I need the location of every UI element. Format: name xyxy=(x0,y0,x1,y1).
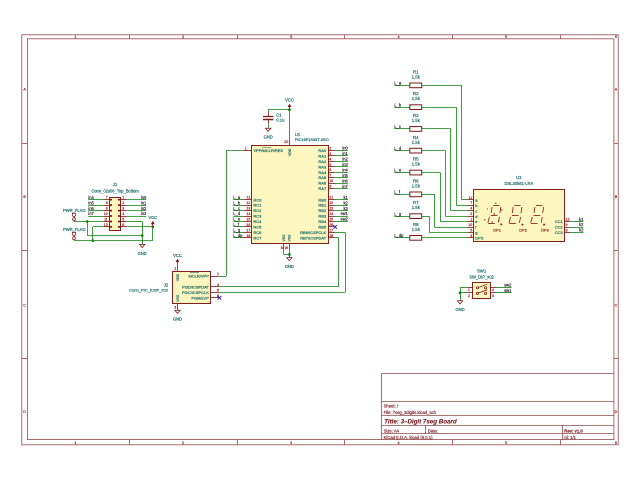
svg-text:12: 12 xyxy=(104,223,108,227)
svg-text:L_f: L_f xyxy=(394,190,401,195)
U2 pin 9 CC2 xyxy=(555,223,571,230)
connector J2 Conn_PIC_ICSP_ICD xyxy=(129,272,210,304)
svg-text:L_c: L_c xyxy=(394,124,401,129)
svg-text:2: 2 xyxy=(174,267,176,271)
wire and net label L_g at U1 xyxy=(233,228,243,233)
svg-text:Conn_PIC_ICSP_ICD: Conn_PIC_ICSP_ICD xyxy=(129,287,168,292)
svg-text:DP1: DP1 xyxy=(493,227,502,232)
resistor R8 1.5k xyxy=(410,222,422,240)
U2 pin 8 CC3 xyxy=(555,229,571,236)
svg-text:in3: in3 xyxy=(141,211,147,216)
wire U1 pin1 to J2 MCLR/VPP xyxy=(219,150,244,276)
svg-text:DPX: DPX xyxy=(475,236,484,241)
svg-text:k1: k1 xyxy=(343,195,348,200)
wire and net label sw1 at U1 xyxy=(335,211,349,216)
svg-text:RC0: RC0 xyxy=(253,197,262,202)
svg-text:VCC: VCC xyxy=(285,98,294,103)
U1 pin 17 RC6 xyxy=(244,228,263,235)
U2 digit 3 seven-segment glyph xyxy=(531,206,550,233)
wire and net label in1 xyxy=(127,200,147,205)
wire and net label sw2 xyxy=(496,282,512,287)
wire and net label L_a at U1 xyxy=(233,195,243,200)
svg-text:SW1: SW1 xyxy=(477,269,487,274)
wire U1 RB7 to J2 PGD/ICSPDAT xyxy=(219,238,339,287)
svg-text:2: 2 xyxy=(329,146,331,150)
svg-text:L_d: L_d xyxy=(394,146,402,151)
svg-text:VCC: VCC xyxy=(173,253,182,258)
svg-text:2: 2 xyxy=(182,441,184,445)
svg-text:Size: A4: Size: A4 xyxy=(384,429,400,434)
svg-text:RA2: RA2 xyxy=(318,159,327,164)
wire and net label L_c at U1 xyxy=(233,206,243,211)
svg-text:GND: GND xyxy=(285,264,294,269)
svg-text:8: 8 xyxy=(281,246,283,250)
title block xyxy=(381,374,614,441)
resistor R4 1.5k xyxy=(410,135,422,153)
svg-text:CC2: CC2 xyxy=(555,225,564,230)
svg-text:CC1: CC1 xyxy=(555,219,564,224)
svg-text:10: 10 xyxy=(329,179,333,183)
svg-text:0.1u: 0.1u xyxy=(276,117,285,122)
svg-text:1: 1 xyxy=(122,196,124,200)
svg-text:8: 8 xyxy=(106,201,108,205)
svg-text:5: 5 xyxy=(122,217,124,221)
U1 pin 13 RC2 xyxy=(244,207,263,214)
svg-text:f: f xyxy=(487,207,488,211)
U2 pin 4 segment c xyxy=(468,207,478,214)
J2 pin 5 PGC/ICSPCLK xyxy=(182,288,219,295)
svg-text:1: 1 xyxy=(74,35,76,39)
svg-text:in2: in2 xyxy=(141,206,147,211)
wire and net label k1 at U2 xyxy=(570,217,584,222)
wire and net label k2 at U2 xyxy=(570,222,584,227)
wire R1 to display pin a xyxy=(422,85,468,200)
svg-text:2: 2 xyxy=(182,35,184,39)
svg-text:1.5k: 1.5k xyxy=(412,205,421,210)
wire and net label in2 at U1 xyxy=(335,157,349,162)
svg-text:L_d: L_d xyxy=(233,211,241,216)
svg-text:L_b: L_b xyxy=(394,102,402,107)
U1 pin 27 RB6/ICSPCLK xyxy=(300,228,334,235)
U2 pin 2 segment d xyxy=(468,212,478,219)
svg-text:4: 4 xyxy=(397,35,399,39)
svg-text:Rev: v1.0: Rev: v1.0 xyxy=(564,429,583,434)
J2 pin 1 MCLR/VPP xyxy=(188,272,219,279)
U2 pin 12 CC1 xyxy=(555,218,571,225)
U2 pin 7 segment b xyxy=(468,201,479,208)
svg-text:VCC: VCC xyxy=(148,215,157,220)
U2 pin 3 segment DPX xyxy=(468,234,484,241)
svg-text:VPP/MCLR/RE3: VPP/MCLR/RE3 xyxy=(253,148,283,153)
VCC at J2 xyxy=(173,253,182,265)
svg-text:1.5k: 1.5k xyxy=(412,74,421,79)
VCC at J1 xyxy=(148,215,157,227)
svg-text:19: 19 xyxy=(284,246,288,250)
J1 pins and pin numbers xyxy=(103,196,127,228)
svg-text:PGM/LVP: PGM/LVP xyxy=(191,295,209,300)
svg-text:L_g: L_g xyxy=(394,211,402,216)
wire and net label in2 xyxy=(127,206,147,211)
svg-text:8: 8 xyxy=(566,229,568,233)
svg-text:in7: in7 xyxy=(88,211,94,216)
svg-text:in1: in1 xyxy=(342,151,348,156)
U2 pin 10 segment f xyxy=(468,223,478,230)
svg-text:22: 22 xyxy=(329,201,333,205)
resistor R6 1.5k xyxy=(410,178,422,196)
svg-text:k3: k3 xyxy=(579,228,584,233)
svg-text:L_dp: L_dp xyxy=(394,233,404,238)
svg-text:6: 6 xyxy=(122,223,124,227)
svg-text:L_dp: L_dp xyxy=(233,233,243,238)
svg-text:9: 9 xyxy=(566,223,568,227)
svg-text:17: 17 xyxy=(246,228,250,232)
wire and net label in0 xyxy=(127,195,147,200)
wire SW1 pins to ground xyxy=(459,287,467,300)
U1 pin 1 VPP/MCLR/RE3 xyxy=(244,146,284,153)
sheet frame border xyxy=(22,35,618,445)
svg-text:Date:: Date: xyxy=(428,429,438,434)
svg-text:k2: k2 xyxy=(579,222,584,227)
resistor R2 1.5k xyxy=(410,91,422,109)
svg-text:Title: 3–Digit 7seg Board: Title: 3–Digit 7seg Board xyxy=(384,418,457,425)
svg-text:RC5: RC5 xyxy=(253,225,262,230)
svg-text:L_a: L_a xyxy=(233,195,241,200)
svg-text:VDD: VDD xyxy=(176,273,180,281)
wire and net label sw2 at U1 xyxy=(335,217,349,222)
wire C1 to VCC rail and U1 VDD xyxy=(268,108,291,139)
U1 pin 14 RC3 xyxy=(244,212,263,219)
svg-text:d: d xyxy=(475,214,477,219)
wire R3 to display pin c xyxy=(422,129,468,211)
power flag PWR_FLAG#2 xyxy=(63,227,86,241)
svg-text:1: 1 xyxy=(470,218,472,222)
wire and net label in1 at U1 xyxy=(335,151,349,156)
svg-text:g: g xyxy=(475,230,477,235)
svg-text:C: C xyxy=(615,303,618,307)
svg-text:4: 4 xyxy=(217,283,219,287)
U1 pin 5 RA3 xyxy=(318,163,334,170)
svg-text:RA6: RA6 xyxy=(318,181,327,186)
svg-text:RA5: RA5 xyxy=(318,175,327,180)
U1 pin 18 RC7 xyxy=(244,234,263,241)
svg-text:VSS: VSS xyxy=(176,294,180,302)
VCC above U1 xyxy=(285,98,294,110)
ground at J1 xyxy=(138,244,147,256)
wire J1 pin5 down to GND junction xyxy=(127,222,144,244)
svg-text:RA3: RA3 xyxy=(318,164,327,169)
U1 pin 23 RB2 xyxy=(318,207,334,214)
wire R5 to display pin e xyxy=(422,173,468,222)
svg-text:5: 5 xyxy=(505,441,507,445)
svg-text:14: 14 xyxy=(246,212,250,216)
svg-text:RA1: RA1 xyxy=(318,153,327,158)
svg-text:9: 9 xyxy=(329,185,331,189)
svg-text:k2: k2 xyxy=(343,200,348,205)
wire and net label L_c at R3 xyxy=(394,124,410,129)
U1 pin 28 RB7/ICSPDAT xyxy=(300,234,334,241)
svg-text:L_b: L_b xyxy=(233,200,241,205)
svg-text:4: 4 xyxy=(329,157,331,161)
wire and net label L_g at R7 xyxy=(394,211,410,216)
svg-text:File: 7seg_3digits.kicad_sch: File: 7seg_3digits.kicad_sch xyxy=(384,410,437,415)
switch SW1 SW_DIP_x02 xyxy=(469,269,494,299)
svg-text:in5: in5 xyxy=(342,173,348,178)
svg-text:RC1: RC1 xyxy=(253,203,262,208)
wire and net label in7 at U1 xyxy=(335,184,349,189)
wire and net label sw1 xyxy=(496,288,512,293)
wire and net label L_e at R5 xyxy=(394,168,410,173)
svg-text:sw1: sw1 xyxy=(504,288,512,293)
svg-text:RC2: RC2 xyxy=(253,208,262,213)
connector J1 Conn_02x06_Top_Bottom xyxy=(91,182,139,230)
J2 pin 4 PGD/ICSPDAT xyxy=(182,283,219,290)
svg-text:27: 27 xyxy=(329,228,333,232)
wire and net label L_dp at R8 xyxy=(394,233,410,238)
U1 pin 15 RC4 xyxy=(244,218,263,225)
svg-text:in6: in6 xyxy=(342,178,348,183)
U1 pin 9 RA7 xyxy=(318,185,334,192)
J2 VDD pin 2 top xyxy=(174,265,180,282)
wire and net label in7 xyxy=(88,211,103,216)
ground at C1 xyxy=(264,127,273,139)
svg-text:RB1: RB1 xyxy=(318,203,327,208)
svg-text:23: 23 xyxy=(329,207,333,211)
U1 VSS pins 8 and 19 bottom xyxy=(281,234,292,250)
svg-text:L_e: L_e xyxy=(233,217,241,222)
U2 digit 2 seven-segment glyph xyxy=(509,206,528,233)
U2 pin 1 segment e xyxy=(468,218,479,225)
svg-text:3: 3 xyxy=(174,306,176,310)
svg-text:24: 24 xyxy=(329,212,333,216)
svg-text:2: 2 xyxy=(122,201,124,205)
svg-text:in1: in1 xyxy=(141,200,147,205)
wire R7 to display pin g xyxy=(422,216,468,232)
svg-text:RB2: RB2 xyxy=(318,208,327,213)
svg-text:L_g: L_g xyxy=(233,228,241,233)
svg-text:4: 4 xyxy=(122,212,124,216)
U1 pin 7 RA5 xyxy=(318,174,334,181)
svg-text:GND: GND xyxy=(455,307,464,312)
svg-text:sw2: sw2 xyxy=(504,282,512,287)
display U2 DSL30561-LRA xyxy=(474,175,565,241)
U1 pin 4 RA2 xyxy=(318,157,334,164)
U1 pin 10 RA6 xyxy=(318,179,334,186)
svg-text:26: 26 xyxy=(329,223,333,227)
svg-text:PGC/ICSPCLK: PGC/ICSPCLK xyxy=(182,290,209,295)
svg-text:in3: in3 xyxy=(342,162,348,167)
svg-text:5: 5 xyxy=(505,35,507,39)
svg-text:1.5k: 1.5k xyxy=(412,140,421,145)
svg-text:RC7: RC7 xyxy=(253,235,262,240)
wire and net label L_a at R1 xyxy=(394,81,410,86)
U1 pin 25 RB4 xyxy=(318,218,334,225)
U1 pin 12 RC1 xyxy=(244,201,263,208)
svg-text:sw1: sw1 xyxy=(341,211,349,216)
wire and net label L_d at U1 xyxy=(233,211,243,216)
wire and net label in3 xyxy=(127,211,147,216)
U1 pin 16 RC5 xyxy=(244,223,263,230)
svg-text:k3: k3 xyxy=(343,206,348,211)
svg-text:DSL30561-LRA: DSL30561-LRA xyxy=(505,181,534,186)
svg-text:DP2: DP2 xyxy=(519,227,528,232)
ground at J2 xyxy=(173,310,182,322)
no-connect flag on U1 pin 26 RB5 xyxy=(333,225,337,229)
svg-text:RB7/ICSPDAT: RB7/ICSPDAT xyxy=(300,235,326,240)
svg-text:1.5k: 1.5k xyxy=(412,118,421,123)
svg-text:2: 2 xyxy=(470,212,472,216)
U1 pin 24 RB3 xyxy=(318,212,334,219)
svg-text:PIC16F1933T-I/SO: PIC16F1933T-I/SO xyxy=(295,137,329,142)
wire and net label k2 at U1 xyxy=(335,200,349,205)
svg-text:1.5k: 1.5k xyxy=(412,162,421,167)
U1 pin 22 RB1 xyxy=(318,201,334,208)
svg-text:RA4: RA4 xyxy=(318,170,327,175)
svg-text:3: 3 xyxy=(492,294,494,298)
U1 pin 26 RB5 xyxy=(318,223,334,230)
wire U1 VSS pins to ground xyxy=(284,249,291,257)
resistor R7 1.5k xyxy=(410,200,422,218)
U2 pin 11 segment a xyxy=(468,196,479,203)
svg-text:7: 7 xyxy=(329,174,331,178)
svg-text:15: 15 xyxy=(246,218,250,222)
J2 pin 6 PGM/LVP xyxy=(191,294,219,301)
svg-text:3: 3 xyxy=(329,152,331,156)
svg-text:20: 20 xyxy=(284,140,288,144)
svg-text:6: 6 xyxy=(329,168,331,172)
svg-text:C: C xyxy=(23,303,26,307)
svg-text:3: 3 xyxy=(470,234,472,238)
svg-text:6: 6 xyxy=(615,441,617,445)
power flag PWR_FLAG#1 xyxy=(63,208,86,222)
svg-text:1.5k: 1.5k xyxy=(412,227,421,232)
svg-text:RC3: RC3 xyxy=(253,214,262,219)
svg-text:RA0: RA0 xyxy=(318,148,327,153)
svg-text:7: 7 xyxy=(106,196,108,200)
svg-text:L_e: L_e xyxy=(394,168,402,173)
svg-text:in4: in4 xyxy=(88,195,94,200)
svg-text:3: 3 xyxy=(122,207,124,211)
svg-text:in2: in2 xyxy=(342,157,348,162)
wire and net label in6 at U1 xyxy=(335,178,349,183)
svg-text:U2: U2 xyxy=(516,175,522,180)
svg-text:9: 9 xyxy=(106,207,108,211)
svg-text:RC6: RC6 xyxy=(253,230,262,235)
svg-text:18: 18 xyxy=(246,234,250,238)
wire and net label in3 at U1 xyxy=(335,162,349,167)
svg-text:k1: k1 xyxy=(579,217,584,222)
U2 pin 5 segment g xyxy=(468,229,478,236)
svg-text:1: 1 xyxy=(217,272,219,276)
wire U1 RB6 to J2 PGC/ICSPCLK xyxy=(219,232,346,292)
svg-text:28: 28 xyxy=(329,234,333,238)
svg-text:11: 11 xyxy=(247,196,251,200)
U1 VDD pin 20 top xyxy=(284,140,292,156)
svg-text:10: 10 xyxy=(468,223,472,227)
svg-text:GND: GND xyxy=(173,317,182,322)
svg-text:MCLR/VPP: MCLR/VPP xyxy=(188,274,209,279)
svg-text:1.5k: 1.5k xyxy=(412,96,421,101)
U1 pin 21 RB0 xyxy=(318,196,334,203)
svg-text:12: 12 xyxy=(246,201,250,205)
wire R6 to display pin f xyxy=(422,194,468,227)
U2 digit 1 seven-segment glyph with segment letters xyxy=(484,201,503,232)
wire and net label in5 xyxy=(88,200,103,205)
svg-text:Id: 1/1: Id: 1/1 xyxy=(564,435,576,440)
svg-text:PWR_FLAG: PWR_FLAG xyxy=(63,208,86,213)
svg-text:sw2: sw2 xyxy=(341,217,349,222)
svg-text:3: 3 xyxy=(290,441,292,445)
svg-text:RC4: RC4 xyxy=(253,219,262,224)
svg-text:in4: in4 xyxy=(342,167,348,172)
svg-text:PWR_FLAG: PWR_FLAG xyxy=(63,227,86,232)
SW1 pins and numbers xyxy=(467,288,496,298)
svg-text:D: D xyxy=(23,410,26,414)
svg-text:in0: in0 xyxy=(141,195,147,200)
wire J1 pin11 to PWR_FLAG and GND rail xyxy=(74,220,142,235)
svg-text:VDD: VDD xyxy=(288,148,292,156)
svg-text:DP3: DP3 xyxy=(541,227,550,232)
wire and net label L_b at U1 xyxy=(233,200,243,205)
svg-text:4: 4 xyxy=(470,207,472,211)
svg-text:GND: GND xyxy=(138,251,147,256)
wire and net label L_d at R4 xyxy=(394,146,410,151)
no-connect flag on J2 PGM/LVP xyxy=(218,296,222,300)
svg-text:7: 7 xyxy=(470,201,472,205)
resistor R5 1.5k xyxy=(410,157,422,175)
microcontroller U1 PIC16F1933T-I/SO xyxy=(252,132,329,243)
wire J1 pin6 to VCC xyxy=(74,226,154,241)
wire and net label L_b at R2 xyxy=(394,102,410,107)
J2 VSS pin 3 bottom xyxy=(174,294,180,310)
U1 pin 11 RC0 xyxy=(244,196,263,203)
capacitor C1 0.1u xyxy=(263,112,285,123)
wire and net label L_dp at U1 xyxy=(233,233,243,238)
wire R4 to display pin d xyxy=(422,151,468,217)
svg-text:1.5k: 1.5k xyxy=(412,183,421,188)
svg-text:1: 1 xyxy=(468,288,470,292)
wire and net label in5 at U1 xyxy=(335,173,349,178)
svg-text:in0: in0 xyxy=(342,146,348,151)
U1 pin 3 RA1 xyxy=(318,152,334,159)
svg-text:5: 5 xyxy=(329,163,331,167)
svg-text:D: D xyxy=(615,410,618,414)
wire and net label k3 at U1 xyxy=(335,206,349,211)
svg-text:5: 5 xyxy=(470,229,472,233)
svg-text:4: 4 xyxy=(397,441,399,445)
svg-text:RB0: RB0 xyxy=(318,197,327,202)
svg-text:13: 13 xyxy=(246,207,250,211)
svg-text:Conn_02x06_Top_Bottom: Conn_02x06_Top_Bottom xyxy=(91,189,139,194)
wire C1 to ground xyxy=(268,124,270,128)
svg-text:3: 3 xyxy=(290,35,292,39)
resistor R3 1.5k xyxy=(410,113,422,131)
svg-text:in7: in7 xyxy=(342,184,348,189)
svg-text:21: 21 xyxy=(329,196,333,200)
svg-text:4: 4 xyxy=(492,288,494,292)
svg-text:2: 2 xyxy=(468,294,470,298)
svg-text:6: 6 xyxy=(615,35,617,39)
svg-text:L_f: L_f xyxy=(233,222,240,227)
svg-text:GND: GND xyxy=(264,135,273,140)
wire R8 to display pin DP xyxy=(422,237,468,239)
U1 pin 6 RA4 xyxy=(318,168,334,175)
svg-text:VSS: VSS xyxy=(288,234,292,242)
svg-text:L_c: L_c xyxy=(233,206,240,211)
svg-text:PGD/ICSPDAT: PGD/ICSPDAT xyxy=(182,285,209,290)
wire J1 pin12 to VCC rail xyxy=(92,227,104,242)
wire and net label L_e at U1 xyxy=(233,217,243,222)
svg-text:VSS: VSS xyxy=(282,234,286,242)
